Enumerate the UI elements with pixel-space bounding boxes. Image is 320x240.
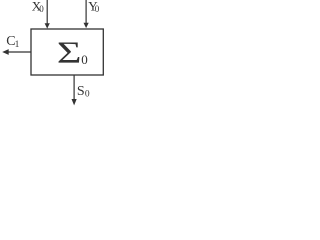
svg-text:1: 1 xyxy=(15,40,20,50)
svg-text:Σ: Σ xyxy=(57,35,82,70)
wire: C1 carry-out horizontal xyxy=(8,51,31,53)
svg-text:0: 0 xyxy=(85,90,90,100)
svg-text:0: 0 xyxy=(39,4,44,14)
arrowhead C1 out to left xyxy=(2,49,9,55)
label Y0 (input net Y0) xyxy=(88,0,100,14)
svg-text:0: 0 xyxy=(81,52,88,67)
svg-text:S: S xyxy=(77,84,85,99)
adder block U1 (one-bit sum slice) xyxy=(31,29,103,75)
wire: X0 input vertical xyxy=(46,0,48,24)
label S0 (sum out net S0) xyxy=(77,84,90,99)
arrowhead Y0 into block xyxy=(84,23,89,28)
label Σ0 (block function label) xyxy=(57,35,88,70)
wire: S0 sum-out vertical xyxy=(73,75,75,100)
svg-text:0: 0 xyxy=(95,4,100,14)
label X0 (input net X0) xyxy=(32,0,44,14)
arrowhead X0 into block xyxy=(45,23,50,28)
label C1 (carry out net C1) xyxy=(6,34,19,50)
wire: Y0 input vertical xyxy=(85,0,87,24)
arrowhead S0 out bottom xyxy=(72,99,77,105)
